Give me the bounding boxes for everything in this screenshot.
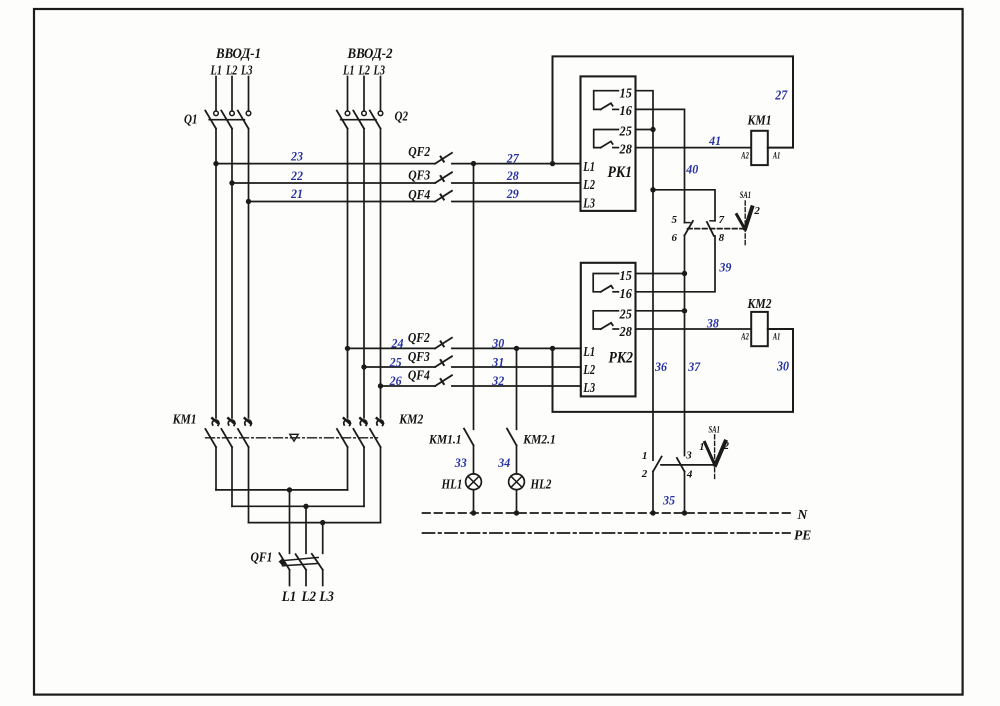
svg-text:L1: L1: [583, 159, 595, 174]
wire 39 (contact 8 to PK2-16): [636, 236, 716, 292]
svg-text:QF4: QF4: [408, 187, 430, 202]
svg-text:ВВОД-2: ВВОД-2: [347, 46, 393, 62]
svg-text:37: 37: [687, 359, 700, 374]
svg-text:КМ2: КМ2: [747, 296, 772, 311]
auxiliary contact KM2.1: [507, 429, 517, 446]
wire Q2 pole2 down: [363, 129, 365, 418]
wire 36 upper segment (vertical A): [652, 130, 654, 190]
wire 27: [452, 163, 581, 165]
node PK2-15 junction on wire 37: [682, 271, 687, 276]
svg-text:1: 1: [642, 450, 648, 462]
svg-text:ВВОД-1: ВВОД-1: [215, 46, 261, 62]
bus PE (dash-dot): [423, 532, 791, 534]
wire KM2.1 branch (from wire 30): [516, 348, 518, 429]
svg-text:24: 24: [391, 335, 404, 350]
linkage SA1 lower: [661, 464, 717, 466]
wire bus L3 (output): [249, 522, 381, 524]
wire Q2 pole3 down: [380, 129, 382, 418]
svg-text:23: 23: [290, 148, 303, 163]
svg-text:L1: L1: [281, 589, 296, 605]
node wire25 tap: [361, 364, 366, 369]
relay PK2 contact 25-28: [593, 311, 618, 329]
relay PK2 body: [581, 263, 636, 397]
svg-text:5: 5: [672, 214, 678, 226]
wire KM1 pole1 to bus1: [215, 447, 217, 490]
wire KM2 pole1 to bus1: [347, 447, 349, 490]
wire KM1 coil A1 return loop to wire 27: [553, 56, 794, 163]
svg-text:4: 4: [686, 469, 693, 481]
contactor KM1 main contacts: [205, 418, 251, 447]
svg-text:2: 2: [723, 441, 730, 452]
wire ВВОД-2 L1 drop: [347, 77, 349, 111]
switch SA1 handle (lower): [705, 435, 726, 481]
svg-text:16: 16: [620, 287, 632, 302]
svg-text:A1: A1: [772, 151, 780, 161]
svg-text:34: 34: [497, 455, 510, 470]
node bus2 QF1 tap: [303, 504, 308, 509]
contactor coil KM2: [751, 312, 768, 346]
wire KM1.1 branch (from wire 27): [473, 164, 475, 430]
svg-text:6: 6: [672, 232, 678, 244]
svg-text:QF1: QF1: [251, 550, 273, 565]
wire 38 (PK2-28 to KM2 coil): [636, 328, 752, 330]
svg-text:L3: L3: [318, 589, 334, 605]
switch SA1 contact 1-2: [653, 457, 662, 472]
svg-text:27: 27: [774, 88, 788, 103]
svg-text:L2: L2: [583, 177, 596, 192]
svg-text:L3: L3: [373, 64, 385, 79]
node KM2.1 tap on wire 30: [514, 346, 519, 351]
wire 36 middle segment: [652, 190, 654, 460]
wire KM1 pole3 to bus3: [248, 447, 250, 523]
wire QF1 pole1 drop: [289, 490, 291, 553]
svg-text:QF3: QF3: [408, 168, 430, 183]
wire 33: [473, 445, 475, 474]
svg-text:25: 25: [619, 124, 632, 139]
switch SA1 contact 3-4: [677, 458, 685, 472]
wire ВВОД-1 L1 drop: [215, 77, 217, 111]
net ВВОД-2 phases L1 L2 L3: [342, 64, 385, 79]
svg-text:L3: L3: [583, 380, 596, 395]
svg-text:22: 22: [290, 168, 303, 183]
wire ВВОД-1 L3 drop: [248, 77, 250, 111]
wire PK2-15 exit: [636, 273, 685, 275]
linkage KM1-KM2 (dash-dot): [206, 437, 378, 439]
svg-text:26: 26: [389, 373, 402, 388]
svg-text:1: 1: [699, 442, 704, 453]
node coil-KM2 return tap on wire 30: [550, 346, 555, 351]
wire 34: [516, 445, 518, 474]
svg-text:29: 29: [506, 186, 519, 201]
wire QF1 pole2 drop: [305, 506, 307, 553]
wire Q1 pole1 down: [215, 129, 217, 418]
switch SA1 contact 5-6: [685, 221, 693, 235]
wire QF1 pole3 out: [322, 570, 324, 586]
wire Q1 pole2 down: [231, 129, 233, 418]
breaker QF3 (input1 group): [435, 172, 452, 183]
wire PK1-25 exit: [636, 129, 654, 131]
svg-text:A2: A2: [741, 151, 749, 161]
wire 25: [364, 366, 435, 368]
svg-text:38: 38: [706, 315, 719, 330]
wire QF1 pole1 out: [289, 570, 291, 586]
svg-text:15: 15: [620, 269, 632, 284]
svg-text:L2: L2: [301, 589, 317, 605]
node coil-KM1 return tap on wire 27: [550, 161, 555, 166]
svg-text:QF2: QF2: [408, 330, 430, 345]
node wire26 tap: [378, 383, 383, 388]
svg-text:L3: L3: [240, 64, 252, 79]
relay PK1 body: [581, 76, 636, 211]
wire PK2-25 exit: [636, 310, 685, 312]
svg-text:Q2: Q2: [395, 110, 409, 125]
bus N (dashed): [423, 512, 793, 514]
disconnector Q1: [205, 111, 251, 129]
svg-text:15: 15: [620, 86, 632, 101]
wire 28: [452, 182, 581, 184]
svg-text:N: N: [797, 507, 809, 522]
wire PK1-15 exit: [636, 91, 654, 130]
svg-text:21: 21: [290, 186, 303, 201]
wire 31: [452, 366, 581, 368]
svg-text:33: 33: [454, 455, 467, 470]
svg-text:16: 16: [620, 104, 632, 119]
wire 24: [348, 347, 436, 349]
svg-text:КМ1.1: КМ1.1: [428, 431, 461, 446]
wire KM2 coil A1 return loop to wire 30: [553, 329, 794, 412]
auxiliary contact KM1.1: [464, 429, 474, 446]
svg-text:РК1: РК1: [607, 164, 632, 181]
svg-text:QF2: QF2: [408, 144, 430, 159]
switch SA1 handle (upper): [737, 201, 752, 245]
breaker QF1: [279, 553, 323, 570]
breaker QF3 (input2 group): [435, 356, 452, 367]
wire KM1 pole2 to bus2: [231, 447, 233, 506]
wire 21: [249, 201, 436, 203]
node HL1-N junction: [471, 510, 476, 515]
node contact2-N junction: [650, 510, 655, 515]
wire 22: [232, 182, 435, 184]
node HL2-N junction: [514, 510, 519, 515]
wire 37 middle segment (vertical B): [684, 235, 686, 455]
svg-text:КМ2.1: КМ2.1: [522, 431, 555, 446]
svg-text:QF3: QF3: [408, 349, 430, 364]
svg-text:КМ1: КМ1: [747, 112, 772, 127]
svg-text:L1: L1: [583, 344, 595, 359]
net ВВОД-1 phases L1 L2 L3: [210, 64, 253, 79]
svg-text:A2: A2: [741, 332, 749, 342]
wire bus L1 (output): [216, 489, 348, 491]
svg-text:3: 3: [685, 449, 692, 461]
wire bus L2 (output): [232, 505, 364, 507]
svg-text:2: 2: [641, 468, 648, 480]
svg-text:25: 25: [619, 307, 632, 322]
node wire22 tap: [229, 180, 234, 185]
wire Q2 pole1 down: [347, 129, 349, 418]
svg-text:32: 32: [491, 373, 504, 388]
wire 40 (PK1-16 exit): [636, 109, 685, 222]
svg-text:L2: L2: [583, 362, 596, 377]
svg-text:28: 28: [619, 325, 632, 340]
node branch junction on wire 36: [650, 187, 655, 192]
svg-text:A1: A1: [772, 332, 780, 342]
disconnector Q2: [337, 111, 383, 129]
node wire24 tap: [345, 346, 350, 351]
svg-text:40: 40: [685, 161, 698, 176]
node bus3 QF1 tap: [320, 520, 325, 525]
svg-text:31: 31: [491, 354, 504, 369]
svg-text:25: 25: [389, 354, 402, 369]
wire 26: [381, 385, 436, 387]
svg-text:HL1: HL1: [441, 477, 463, 492]
svg-text:SA1: SA1: [708, 426, 720, 436]
svg-text:28: 28: [506, 168, 519, 183]
wire QF1 pole3 drop: [322, 523, 324, 554]
wire ВВОД-1 L2 drop: [231, 77, 233, 111]
node wire21 tap: [246, 199, 251, 204]
contactor coil KM1: [751, 131, 768, 165]
svg-text:PE: PE: [794, 528, 811, 543]
wire HL1 to N: [473, 490, 475, 513]
wire 35 (contact 2 to N): [652, 472, 654, 514]
svg-text:30: 30: [491, 335, 504, 350]
svg-text:РК2: РК2: [608, 349, 633, 366]
svg-text:2: 2: [753, 205, 760, 217]
node wire23 tap: [213, 161, 218, 166]
svg-text:28: 28: [619, 142, 632, 157]
svg-text:27: 27: [506, 151, 519, 166]
wire KM2 pole2 to bus2: [363, 447, 365, 506]
svg-text:35: 35: [662, 493, 675, 508]
svg-text:КМ1: КМ1: [172, 411, 197, 426]
lamp HL1: [466, 474, 482, 490]
wire 32: [452, 385, 581, 387]
wire ВВОД-2 L3 drop: [380, 77, 382, 111]
svg-text:Q1: Q1: [184, 113, 198, 128]
wire branch to SA1 contact 7: [653, 190, 715, 221]
node bus1 QF1 tap: [287, 487, 292, 492]
switch SA1 contact 7-8: [707, 221, 715, 236]
svg-text:39: 39: [718, 260, 731, 275]
svg-text:41: 41: [708, 133, 721, 148]
wire KM2 pole3 to bus3: [380, 447, 382, 523]
breaker QF4 (input1 group): [435, 191, 452, 202]
svg-text:8: 8: [719, 232, 725, 244]
relay PK1 contact 15-16: [594, 91, 619, 110]
svg-text:L3: L3: [583, 195, 596, 210]
breaker QF2 (input2 group): [435, 338, 452, 349]
breaker QF2 (input1 group): [435, 153, 452, 164]
linkage SA1 upper (dashed): [688, 228, 743, 230]
svg-text:7: 7: [719, 214, 725, 226]
lamp HL2: [509, 474, 525, 490]
interlock triangle: [290, 434, 298, 441]
svg-text:36: 36: [654, 359, 667, 374]
wire ВВОД-2 L2 drop: [363, 77, 365, 111]
svg-text:SA1: SA1: [740, 191, 752, 201]
node KM1.1 tap on wire 27: [471, 161, 476, 166]
wire 23: [216, 163, 435, 165]
svg-text:HL2: HL2: [530, 477, 552, 492]
relay PK2 contact 15-16: [593, 274, 618, 292]
wire QF1 pole2 out: [305, 570, 307, 586]
wire 30: [452, 347, 581, 349]
wire Q1 pole3 down: [248, 129, 250, 418]
relay PK1 contact 25-28: [594, 130, 619, 148]
wire 29: [452, 201, 581, 203]
contactor KM2 main contacts: [337, 418, 383, 447]
node PK2-25 junction on wire 37: [682, 308, 687, 313]
node contact4-N junction: [682, 510, 687, 515]
wire 41 (PK1-28 to KM1 coil): [636, 147, 752, 149]
wire contact 4 to N: [684, 472, 686, 514]
svg-text:30: 30: [776, 359, 789, 374]
breaker QF4 (input2 group): [435, 375, 452, 386]
svg-text:КМ2: КМ2: [398, 411, 423, 426]
node 15/25 junction: [650, 127, 655, 132]
svg-text:L1: L1: [342, 64, 354, 79]
wire HL2 to N: [516, 490, 518, 513]
svg-text:QF4: QF4: [408, 367, 430, 382]
